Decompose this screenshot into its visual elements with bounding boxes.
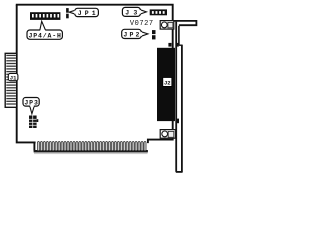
svg-text:J1: J1 — [10, 74, 17, 81]
svg-text:JP4/A-H: JP4/A-H — [28, 32, 61, 39]
svg-text:JP1: JP1 — [78, 10, 96, 17]
svg-text:JP3: JP3 — [24, 99, 38, 106]
svg-text:JP2: JP2 — [123, 32, 139, 39]
svg-text:J2: J2 — [164, 80, 171, 87]
svg-text:V0727: V0727 — [130, 20, 154, 28]
